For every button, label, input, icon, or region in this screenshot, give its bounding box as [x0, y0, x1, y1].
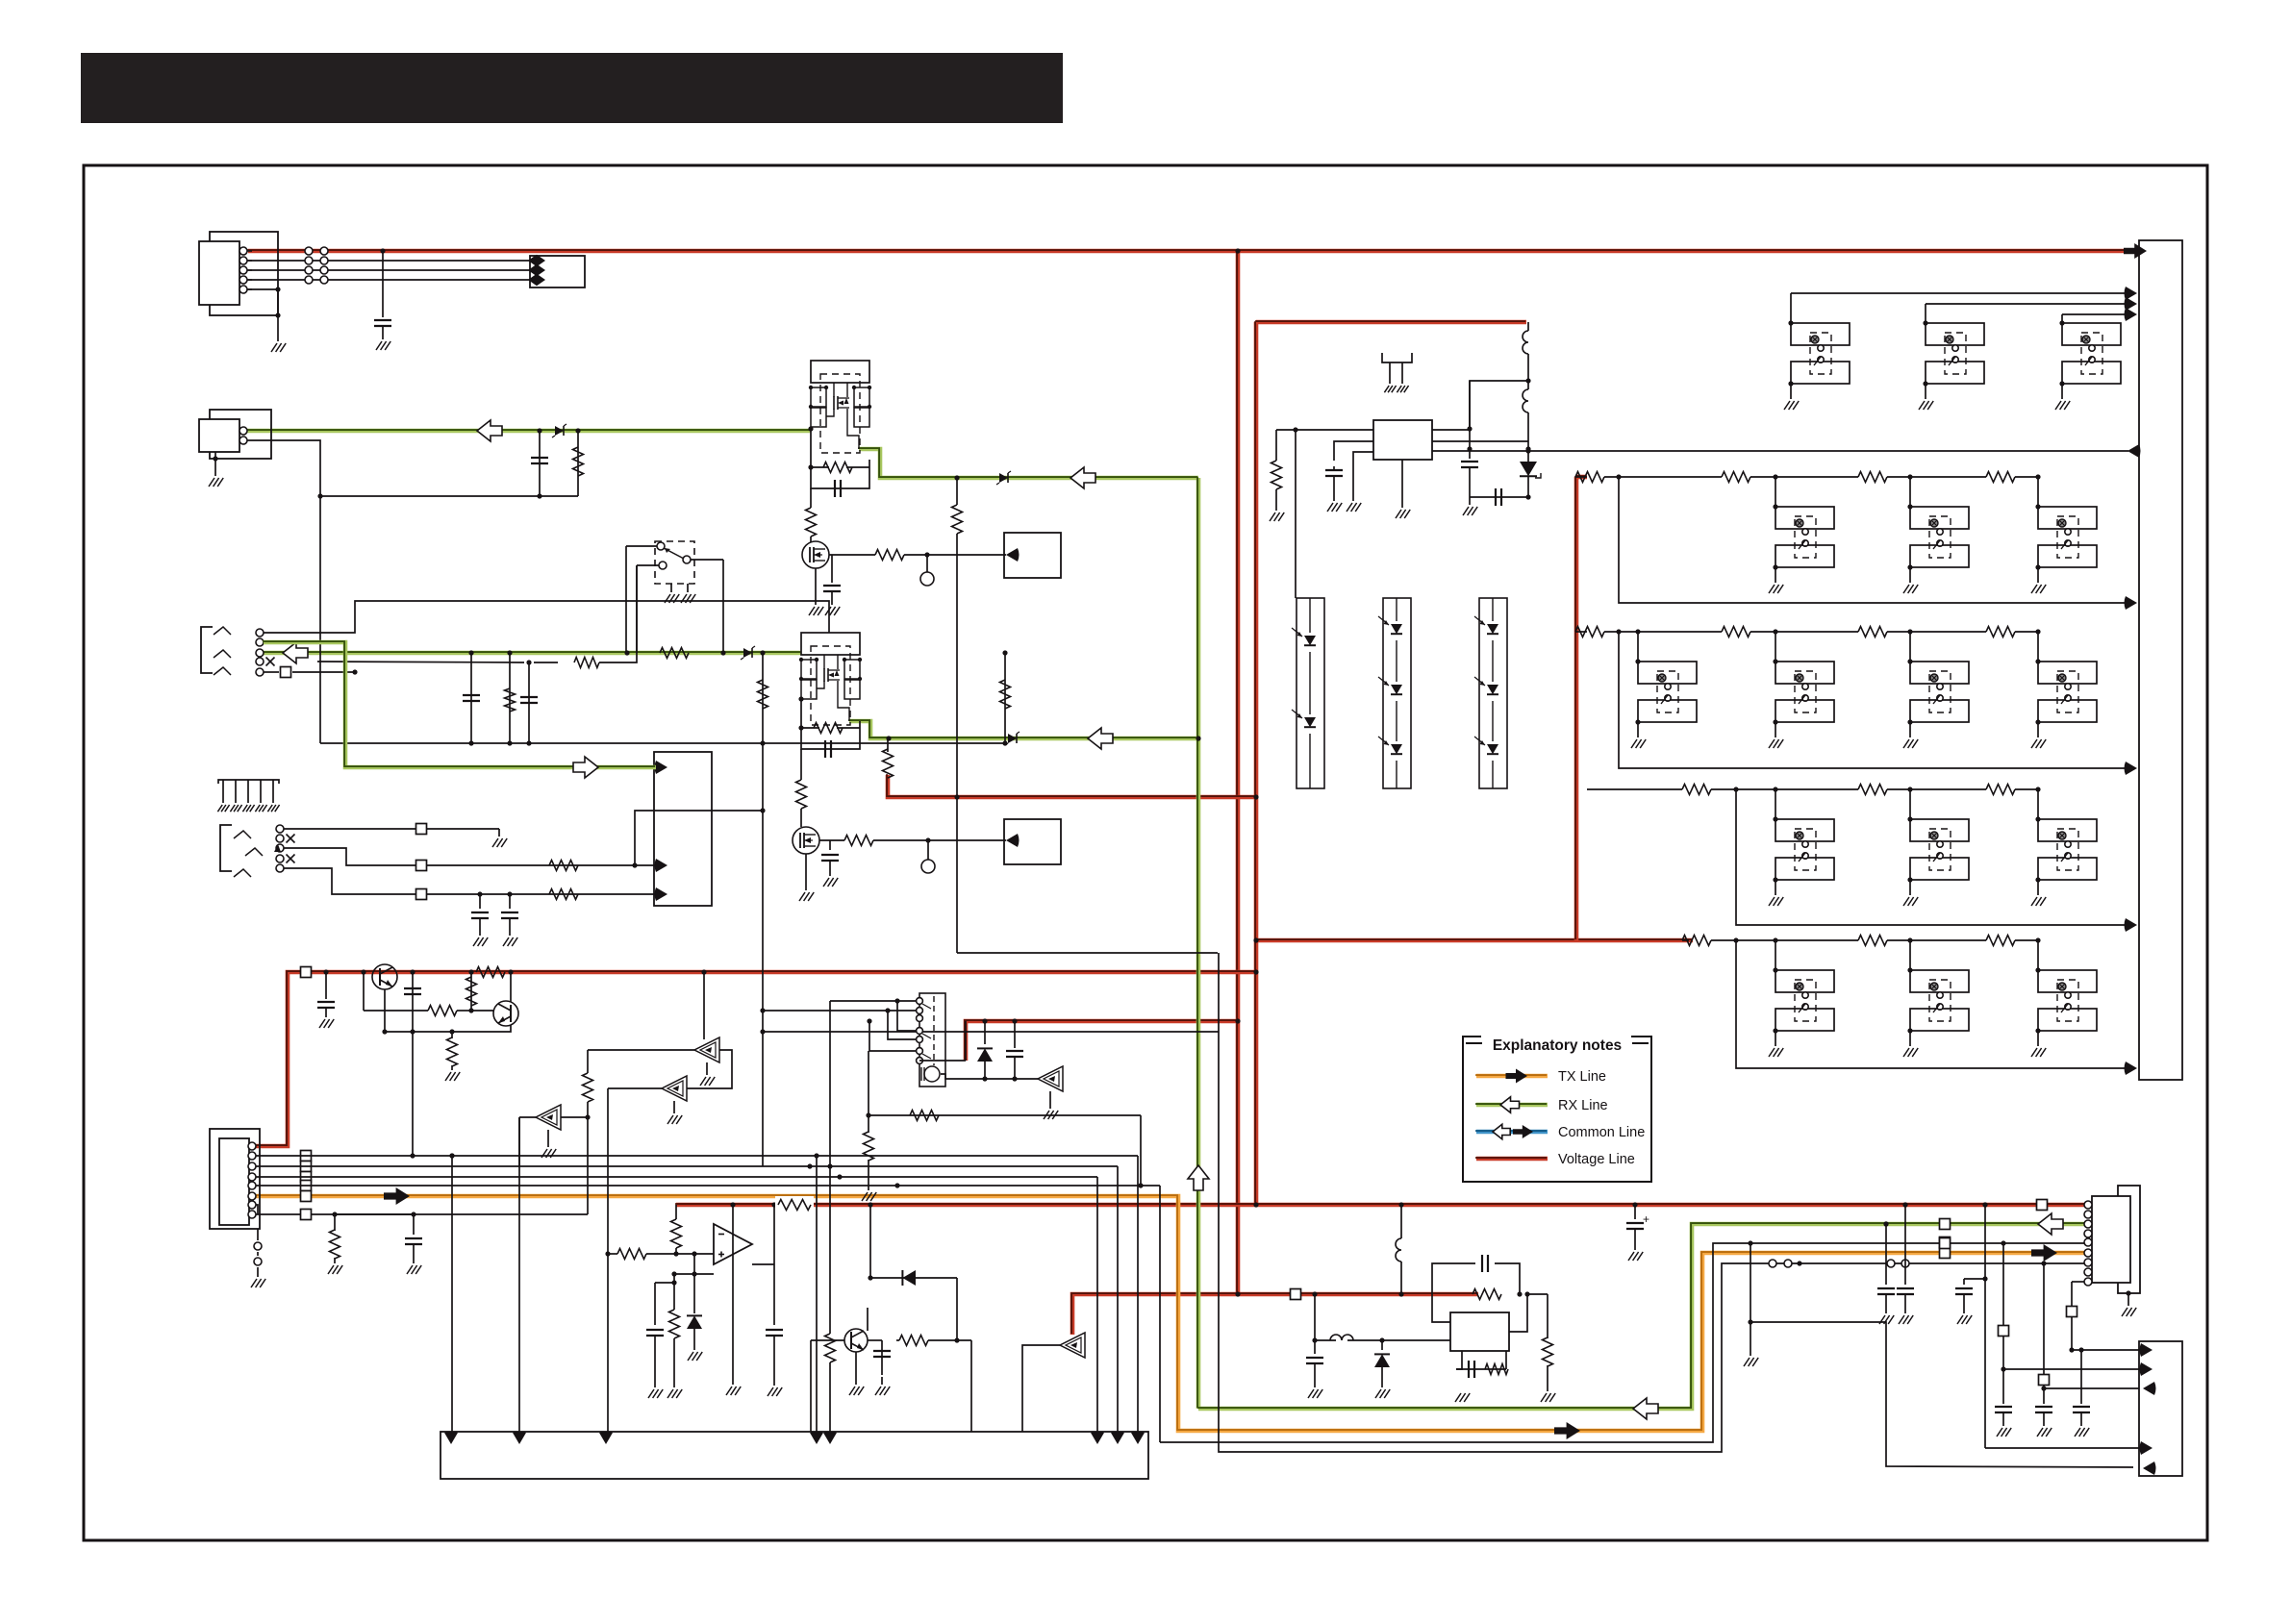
- LED channel 2: [1383, 598, 1411, 788]
- bus row4: [256, 1183, 1160, 1442]
- S2 wire y1062: [867, 1018, 916, 1051]
- rx open arrow rx4: [1070, 467, 1095, 488]
- connector B ground stem: [213, 452, 217, 476]
- psu wire to IC: [1382, 1339, 1450, 1341]
- relay K41: [1775, 970, 1834, 1031]
- resistor x490 v: [466, 969, 477, 1011]
- buffer T_e: [1038, 1066, 1063, 1091]
- connector C pin 5: [248, 1182, 256, 1189]
- cap drop x2083: [2002, 1368, 2004, 1370]
- rail y773: [320, 740, 1008, 745]
- T_c out wire: [588, 1049, 694, 1051]
- relay K01 ground: [1784, 384, 1799, 410]
- bus box arrow x630: [599, 1432, 613, 1445]
- relay K23 ground: [1903, 722, 1918, 748]
- relay K03 dots: [2059, 320, 2064, 386]
- psu junction1: [1312, 1291, 1317, 1296]
- bus box arrow x1162: [1111, 1432, 1124, 1445]
- psu gnd1: [1470, 1369, 1472, 1391]
- ground cap x530: [503, 937, 517, 946]
- x1820 branch: [1744, 1240, 1758, 1366]
- jack E bracket: [220, 825, 232, 871]
- M2 gate cap: [821, 840, 839, 876]
- conn H pin y1404: [2140, 1343, 2153, 1357]
- ground M1 gate cap: [825, 607, 840, 615]
- connector A bracket: [210, 232, 278, 315]
- cap drop x490: [463, 653, 480, 746]
- relay K12 dots: [1907, 504, 1912, 569]
- T_a gnd: [541, 1130, 556, 1158]
- connector G pin 9: [2084, 1278, 2092, 1286]
- psu cap in2: [1306, 1340, 1323, 1398]
- relay K11 dots: [1773, 504, 1777, 569]
- capacitor C1: [374, 320, 391, 339]
- S2 wire x933: [897, 1001, 916, 1031]
- black step S2: [1219, 953, 2084, 1452]
- box G1 pin green: [655, 761, 668, 774]
- cap x530: [501, 891, 518, 936]
- row8 resistor: [328, 1214, 342, 1274]
- legend rx text: [1558, 1098, 1608, 1113]
- SW circle M2: [921, 840, 935, 873]
- LED diodes ch1: [1292, 598, 1319, 788]
- relay row0 feed 2: [1926, 297, 2137, 323]
- relay K13: [2038, 507, 2097, 567]
- tx arrow on orange: [384, 1187, 410, 1205]
- relay K43 ground: [2031, 1031, 2046, 1057]
- connector A pin 2: [239, 257, 252, 264]
- mosfet block B: [799, 633, 862, 725]
- M2 out to box F2: [928, 839, 1006, 841]
- legend box: [1463, 1037, 1651, 1182]
- block B lower stem: [800, 749, 802, 780]
- psu resistor red: [1473, 1289, 1501, 1300]
- connector A pin 5: [239, 286, 252, 293]
- buffer T_a: [519, 1105, 561, 1166]
- jack D pin 2: [256, 638, 264, 646]
- psu cap in: [1314, 1346, 1316, 1365]
- black step S1: [1160, 1243, 2084, 1442]
- relay K11 ground: [1769, 567, 1783, 593]
- transistor Q3: [844, 1308, 868, 1352]
- zener on rx4: [996, 471, 1011, 485]
- connector B body: [199, 419, 239, 452]
- bus row squares: [301, 1151, 312, 1202]
- relay K21 ground: [1631, 722, 1646, 748]
- D2 lower wire: [1525, 477, 1530, 500]
- rx line block A out: [858, 448, 1198, 478]
- T_b gnd: [667, 1101, 682, 1124]
- wire A row3: [247, 269, 530, 271]
- connector G pin 8: [2084, 1268, 2092, 1276]
- resistor drop x793: [758, 653, 768, 813]
- IC U1 left1 resistor: [1271, 430, 1282, 511]
- transistor Q1: [361, 964, 397, 1011]
- relay K43 dots: [2035, 967, 2040, 1033]
- antenna symbol: [1382, 353, 1412, 392]
- legend common line: [1475, 1124, 1548, 1138]
- connector A body: [199, 241, 239, 305]
- voltage line bottom y1253: [675, 1202, 2085, 1208]
- rx junction x1246 y768: [1196, 736, 1200, 740]
- rx1 res leg: [573, 431, 584, 496]
- S2 lamp: [921, 1066, 940, 1082]
- connector G bracket: [2118, 1186, 2140, 1293]
- ground x1528: [1463, 507, 1477, 515]
- switch SW1 gnd stub 1: [665, 584, 679, 603]
- wire to H pin5: [1721, 1466, 1723, 1468]
- bottom bus box: [441, 1432, 1148, 1479]
- wire y689: [317, 565, 637, 668]
- connector G ground: [2122, 1290, 2136, 1316]
- block A loop resistor: [808, 426, 852, 472]
- S2 wire y1093: [866, 1051, 870, 1118]
- U2 out: [752, 1202, 777, 1264]
- connector C pin 7: [248, 1201, 256, 1209]
- ground x470: [445, 1072, 460, 1081]
- led feed from IC: [1295, 430, 1297, 598]
- ground M2 gate cap: [823, 878, 838, 887]
- rx vertical arrow: [1188, 1165, 1209, 1190]
- switch SW1 gnd stub 2: [681, 584, 695, 603]
- T_b loop: [687, 1050, 732, 1088]
- bus drop x469: [449, 1153, 454, 1432]
- voltage line vertical A x1287: [1235, 250, 1241, 1294]
- res drop x530: [505, 653, 516, 746]
- relay K32: [1910, 819, 1969, 880]
- wire y1073: [763, 1031, 1219, 1033]
- relay K24 ground: [2031, 722, 2046, 748]
- resistor jack E wire3: [549, 889, 578, 900]
- S2 wire y1041: [830, 998, 916, 1003]
- relay K32 dots: [1907, 816, 1912, 882]
- S2 wire x923: [885, 1008, 916, 1039]
- bus box arrow x1183: [1131, 1432, 1145, 1445]
- mosfet M1: [802, 541, 829, 568]
- shell ground stem: [275, 289, 280, 341]
- rx2 junction dots: [468, 650, 765, 655]
- voltage line branch y335: [1255, 319, 1526, 324]
- row8 cont: [335, 1212, 416, 1216]
- inline connector pair y271: [305, 257, 328, 264]
- cap stack 2: [2035, 1388, 2052, 1437]
- relay K32 ground: [1903, 880, 1918, 906]
- legend common text: [1558, 1125, 1645, 1140]
- rx open arrow into G1: [573, 757, 598, 778]
- connector C gnd chain: [251, 1229, 265, 1287]
- LED channel 1: [1297, 598, 1324, 788]
- connector C pin 8: [248, 1211, 256, 1218]
- switch bank S2 contacts: [917, 996, 934, 1065]
- jack E wire1: [284, 824, 499, 835]
- LED diodes ch2: [1378, 598, 1405, 788]
- switch bank S2 box: [919, 993, 945, 1087]
- x722 net: [693, 1254, 695, 1274]
- sq orange y1303: [1940, 1248, 1951, 1259]
- rx line from connector B: [246, 428, 811, 433]
- relay K42 ground: [1903, 1031, 1918, 1057]
- x2064 drop: [1982, 1202, 2139, 1448]
- wire y991 to x1266: [957, 952, 1218, 954]
- resistor jack E wire2: [549, 861, 578, 871]
- block A lower stem: [810, 488, 812, 508]
- M1 out wire: [829, 554, 875, 556]
- legend title dashes: [1466, 1042, 1649, 1044]
- junction dots bottom red: [1902, 1202, 1987, 1207]
- svg-text:TX Line: TX Line: [1558, 1069, 1606, 1085]
- ground x339: [319, 1019, 334, 1028]
- connector B bracket: [210, 410, 271, 459]
- connector G pin 7: [2084, 1259, 2092, 1266]
- jack D pin1 wire: [264, 601, 829, 633]
- inline connector pair y291: [305, 276, 328, 284]
- SW circle M1: [920, 552, 934, 586]
- zener on rx3: [886, 732, 1020, 745]
- legend tx text: [1558, 1069, 1606, 1085]
- black wire y1333: [2067, 1282, 2140, 1353]
- cap x429: [404, 969, 421, 1158]
- relay row0 feed 3: [2062, 308, 2137, 323]
- relay row0 feed 1: [1791, 287, 2137, 323]
- jack E pin 2: [276, 835, 284, 842]
- resistor x923 rx3: [883, 738, 894, 778]
- bus row1: [256, 1153, 1138, 1158]
- M1 source gnd: [809, 568, 823, 615]
- rx line block B out: [848, 720, 1198, 738]
- legend title bg: [1481, 1029, 1631, 1046]
- voltage line top red: [247, 248, 2128, 253]
- bus drop x863: [825, 1163, 836, 1432]
- bus drop x1183: [1137, 1156, 1139, 1432]
- x611 chain: [583, 1050, 593, 1117]
- cap x499: [471, 891, 489, 936]
- conn H pin y1444: [2143, 1382, 2156, 1395]
- box G1 pin 3: [655, 887, 668, 901]
- bus box arrow x849: [810, 1432, 823, 1445]
- inductor L2: [1523, 381, 1531, 452]
- bus drop x849: [814, 1153, 818, 1432]
- resistor base h: [364, 1006, 474, 1016]
- cap from red line: [380, 248, 385, 317]
- relay K33: [2038, 819, 2097, 880]
- conn H pin y1506: [2140, 1441, 2153, 1455]
- wire IC to L join: [1467, 381, 1528, 432]
- sq on y1293: [1940, 1238, 1951, 1249]
- psu grounds: [1455, 1369, 1470, 1402]
- relay K13 ground: [2031, 567, 2046, 593]
- IC U1 pin left2: [1334, 441, 1373, 461]
- psu square: [1291, 1289, 1301, 1300]
- connector G pin 6: [2084, 1249, 2092, 1257]
- inline circles y1314: [1769, 1260, 1909, 1267]
- IC U1: [1373, 420, 1432, 460]
- relay K02 dots: [1923, 320, 1927, 386]
- left branch x1528: [1469, 381, 1471, 429]
- sq green y1273: [1940, 1219, 1951, 1230]
- legend tx line: [1475, 1069, 1548, 1084]
- M2 out wire: [819, 839, 844, 841]
- inline connector pair y261: [305, 247, 328, 255]
- relay K43: [2038, 970, 2097, 1031]
- diode left x939 y1329: [868, 1270, 957, 1286]
- resistor red y1253: [775, 1196, 814, 1213]
- x611 lower: [335, 1117, 588, 1214]
- switch SW1 box: [655, 541, 694, 584]
- ground U1 bottom: [1396, 510, 1410, 518]
- bus drop x630: [607, 1254, 609, 1432]
- x2125 branch: [2039, 1261, 2140, 1390]
- resistor M2 out: [844, 836, 931, 846]
- tx solid arrow conn G: [2031, 1244, 2057, 1262]
- box F1: [1004, 533, 1061, 578]
- transistor Q2: [471, 972, 518, 1026]
- rx1 cap leg: [531, 431, 548, 496]
- junction dots red verticals: [1235, 248, 1258, 1296]
- bus drop x1162: [1117, 1166, 1119, 1432]
- jack E wire3: [284, 868, 654, 900]
- ground C1: [376, 341, 390, 350]
- voltage line psu y1346: [1071, 1293, 1478, 1335]
- relay row2 feed: [1575, 627, 2137, 776]
- S2 wire y1160: [869, 1111, 1141, 1121]
- jack D bracket: [201, 627, 213, 673]
- x2083 branch: [1999, 1240, 2140, 1371]
- mosfet M2: [793, 827, 819, 854]
- switch SW1 lower wire: [637, 565, 659, 653]
- voltage line relay feed y978: [1255, 937, 1693, 943]
- voltage line relay stem x1639: [1573, 476, 1579, 940]
- resistor below block B: [796, 780, 807, 827]
- bus box arrow x1141: [1091, 1432, 1104, 1445]
- jack E contacts: [234, 831, 263, 877]
- T_c gnd: [700, 1062, 715, 1086]
- T_e gnd: [1044, 1091, 1058, 1119]
- conn G cap mid: [1955, 1276, 1988, 1324]
- wire A row4: [247, 279, 530, 281]
- cap x339: [317, 969, 335, 1017]
- svg-text:+: +: [1643, 1212, 1649, 1226]
- psu out right: [1509, 1291, 1530, 1332]
- M1 out to box F1: [936, 554, 1006, 556]
- voltage line y829: [887, 774, 1256, 797]
- IC U1 pin left3: [1353, 452, 1373, 501]
- bus drop x540: [518, 1117, 520, 1432]
- relay K22 ground: [1769, 722, 1783, 748]
- relay K31: [1775, 819, 1834, 880]
- svg-text:RX Line: RX Line: [1558, 1098, 1608, 1113]
- ground connector B: [209, 478, 223, 487]
- jack D pin 5: [256, 668, 264, 676]
- connector G pin 1: [2084, 1201, 2092, 1209]
- sq red y1253: [2037, 1200, 2048, 1211]
- bus arrow y469: [2127, 444, 2141, 458]
- IC U1 bottom pin: [1401, 460, 1403, 508]
- shield comb: [217, 780, 279, 812]
- bus row2: [256, 1163, 1118, 1168]
- jack D pin5 wire: [264, 667, 358, 678]
- box G1 pin 2: [655, 859, 668, 872]
- x1010 out: [970, 1340, 972, 1432]
- conn B return drop: [319, 496, 321, 743]
- preamp bottom rail: [382, 1025, 511, 1035]
- jack E wire2: [284, 848, 635, 871]
- inline connector pair y281: [305, 266, 328, 274]
- inductor L1: [1523, 322, 1531, 384]
- relay K21: [1638, 662, 1697, 722]
- conn H body: [2139, 1341, 2182, 1476]
- switch SW1 left wire: [626, 546, 657, 653]
- rx open arrow 1: [477, 420, 502, 441]
- relay K03 ground: [2055, 384, 2070, 410]
- voltage line vertical B x1306: [1253, 321, 1259, 1205]
- connector G pin 4: [2084, 1230, 2092, 1237]
- legend title: [1493, 1037, 1622, 1054]
- rx arrow bottom: [1633, 1398, 1658, 1419]
- U2 plus wire: [671, 1271, 714, 1276]
- x995 net: [954, 1278, 959, 1343]
- jack E pin 4: [276, 855, 284, 862]
- resistor drop x1045: [1000, 650, 1011, 743]
- cap x681: [646, 1280, 677, 1398]
- square on red y1011: [301, 967, 312, 978]
- Q3 collector net: [868, 1340, 891, 1395]
- svg-text:Explanatory notes: Explanatory notes: [1493, 1037, 1622, 1054]
- connector B pin1: [239, 427, 247, 435]
- jack D x marks: [266, 658, 275, 666]
- vertical x995: [952, 475, 963, 953]
- IC U1 left2 cap: [1325, 466, 1343, 501]
- rx open arrow rx3: [1088, 728, 1113, 749]
- buffer T_b: [608, 1076, 687, 1254]
- M2 source gnd: [799, 854, 814, 901]
- connector G pin 5: [2084, 1238, 2092, 1246]
- connector A pin 3: [239, 266, 252, 274]
- resistor on rx2: [660, 648, 689, 659]
- zener on rx1: [537, 424, 580, 437]
- resistor below block A: [806, 508, 817, 542]
- block A loop rails: [811, 429, 869, 488]
- relay K31 dots: [1773, 816, 1777, 882]
- Q3 base wire: [811, 1340, 844, 1432]
- relay K13 dots: [2035, 504, 2040, 569]
- bus box arrow x540: [513, 1432, 526, 1445]
- block B loop rails: [801, 699, 860, 749]
- connector G body: [2092, 1196, 2130, 1283]
- zener on rx2: [741, 646, 755, 660]
- psu IC U3: [1450, 1312, 1509, 1351]
- jack E pin 1: [276, 825, 284, 833]
- title bar: [81, 53, 1063, 123]
- green into G1: [263, 641, 656, 767]
- connector C body: [219, 1138, 249, 1225]
- relay K01 dots: [1788, 320, 1793, 386]
- Q1 emitter: [384, 989, 386, 1032]
- relay K21 dots: [1635, 659, 1640, 724]
- S2 vertical x863: [829, 1001, 831, 1166]
- voltage line relay stub y496: [1575, 474, 1587, 479]
- psu resistor v right: [1527, 1294, 1555, 1402]
- resistor into U2: [605, 1249, 646, 1260]
- relay row4 feed: [1682, 936, 2137, 1076]
- row8 cap: [405, 1214, 422, 1274]
- voltage line mic y1011: [250, 971, 1256, 1146]
- rx1 return wire: [247, 440, 578, 499]
- S2 out rail y1122: [941, 1074, 1038, 1082]
- rx line jack D: [263, 650, 801, 656]
- ground U1 res: [1270, 512, 1284, 521]
- mosfet block A: [809, 361, 871, 453]
- Q3 emitter gnd: [849, 1352, 864, 1395]
